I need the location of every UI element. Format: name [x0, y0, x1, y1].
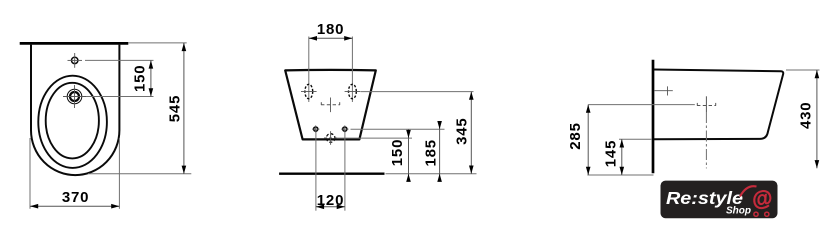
svg-text:145: 145: [602, 140, 619, 167]
wall line (plan view, thick): [20, 42, 129, 45]
extension line right for 370: [118, 138, 120, 209]
svg-text:545: 545: [166, 95, 183, 122]
dimension 120: [316, 192, 345, 209]
bottom extension line (side view): [587, 174, 653, 176]
fixing cross mark (side): [654, 86, 673, 95]
dimension 145: [602, 139, 624, 175]
svg-text:120: 120: [317, 192, 344, 209]
drain axis mark (side, dash-dot): [697, 96, 716, 168]
bidet body outline (plan): [31, 45, 119, 176]
faucet hole (plan) with crosshair: [63, 85, 86, 108]
extension lines for 120: [315, 132, 317, 211]
extension lines for 180 down through fixing holes: [308, 37, 310, 103]
extension line from right fixing hole to 345: [361, 91, 474, 93]
svg-text:@: @: [750, 186, 773, 212]
fixing hole right (dashed oval): [345, 84, 361, 98]
logo red @ cart: [740, 186, 774, 216]
bottom fixing dot left: [312, 125, 319, 132]
extension line from drain axis to 285: [588, 104, 695, 106]
logo box: [661, 181, 778, 219]
svg-text:430: 430: [798, 102, 815, 129]
bottom fixing dot right: [341, 125, 348, 132]
extension line from drain to 150: [337, 137, 413, 139]
extension line from body bottom to 145: [619, 138, 652, 140]
bidet body profile (side): [654, 70, 783, 140]
wall line (side view, thick vertical): [652, 60, 655, 174]
extension line from right fixing dot to 185: [351, 128, 445, 130]
dimension 180: [309, 21, 353, 41]
dimension 545: [166, 43, 186, 174]
front body trapezoid outline: [285, 70, 376, 140]
extension line from faucet hole: [86, 96, 154, 98]
dimension 285: [567, 105, 590, 175]
dimension 185 (front view, outside arrows): [422, 121, 442, 182]
extension line from wall top to 545: [128, 42, 186, 44]
svg-text:150: 150: [389, 139, 406, 166]
extension line left for 370: [29, 138, 31, 209]
dimension 370: [30, 189, 119, 209]
center mark (front view): [321, 98, 340, 113]
svg-text:345: 345: [453, 117, 470, 144]
floor line (thick): [279, 172, 384, 174]
dimension 430: [798, 70, 820, 168]
svg-text:150: 150: [132, 65, 149, 92]
fixing hole left (dashed oval): [301, 84, 317, 98]
extension line from body bottom to 545: [88, 173, 191, 175]
floor extension line (thin, right of floor): [386, 173, 477, 175]
drain circle (front view, dashed): [324, 131, 337, 145]
outer bowl rim oval: [38, 76, 107, 168]
dimension 150 (front view, outside arrows): [389, 130, 411, 182]
inner bowl oval: [46, 83, 99, 159]
svg-text:370: 370: [62, 189, 89, 206]
svg-text:285: 285: [567, 122, 584, 149]
dimension 345 (front view): [453, 92, 473, 174]
svg-text:180: 180: [317, 21, 344, 38]
extension line from body top to 430: [786, 69, 820, 71]
small hole (plan) with crosshair: [68, 53, 83, 68]
svg-text:Shop: Shop: [726, 206, 751, 217]
dimension 150 (plan view): [132, 60, 154, 96]
svg-text:185: 185: [422, 139, 439, 166]
extension line from small hole: [85, 59, 154, 61]
